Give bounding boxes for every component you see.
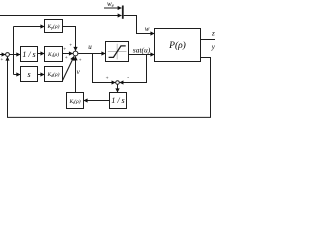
svg-text:+: +: [79, 58, 82, 64]
anti-windup integrator block 1/s: [110, 93, 127, 109]
saturation block: [106, 42, 129, 62]
svg-text:we: we: [107, 0, 115, 9]
svg-text:w: w: [145, 25, 150, 33]
saturation axes: [108, 51, 127, 53]
svg-text:Ki(ρ): Ki(ρ): [47, 51, 59, 58]
wire u to saturation: [78, 53, 105, 55]
svg-text:sat(u): sat(u): [133, 45, 151, 54]
integrator block 1/s: [21, 47, 38, 62]
gain block Kp: [45, 20, 63, 33]
wire branch to Kp: [14, 26, 45, 28]
summing node 1: [6, 53, 10, 57]
svg-text:y: y: [211, 43, 215, 51]
wire v from Kt up to summer: [75, 57, 77, 93]
wire bar to plant w input: [124, 16, 155, 34]
plant P box: [155, 29, 201, 62]
node merge bar: [122, 6, 124, 19]
wire integrator to Kt: [84, 100, 110, 102]
wire error branch vertical: [13, 27, 15, 75]
difference node 3: [116, 81, 120, 85]
wire w_e stub: [104, 7, 121, 9]
wire reference input e: [0, 54, 5, 56]
svg-text:Kt(ρ): Kt(ρ): [68, 98, 80, 105]
wire y output and feedback loop: [8, 57, 211, 118]
wire Kd out diagonal to summer: [63, 56, 75, 80]
wire top exogenous line: [0, 15, 121, 17]
svg-text:+: +: [63, 46, 66, 52]
svg-text:Kp(ρ): Kp(ρ): [47, 23, 60, 30]
svg-text:+: +: [65, 55, 68, 61]
svg-text:z: z: [211, 30, 215, 38]
derivative block s: [21, 67, 38, 82]
svg-text:u: u: [88, 43, 92, 51]
summing node 2: [73, 51, 78, 56]
svg-text:P(ρ): P(ρ): [168, 40, 186, 51]
wire u branch down to difference node: [93, 54, 116, 83]
wire branch to s: [14, 74, 21, 76]
gain block Ki: [45, 47, 63, 62]
gain block Kd: [45, 67, 63, 82]
wire 1/s to Ki: [38, 53, 45, 55]
wire difference to integrator: [117, 84, 119, 92]
svg-text:v: v: [77, 68, 81, 76]
wire Ki out to summer left: [63, 53, 73, 55]
svg-text:-: -: [127, 75, 129, 81]
wire error to integrator: [9, 54, 20, 56]
anti-windup gain block Kt: [67, 93, 84, 109]
wire z output: [201, 39, 216, 41]
svg-text:1 / s: 1 / s: [111, 96, 124, 105]
svg-text:s: s: [27, 70, 30, 79]
svg-text:+: +: [1, 58, 4, 63]
svg-text:1 / s: 1 / s: [22, 50, 35, 59]
wire s to Kd: [38, 74, 45, 76]
wire sat branch down to difference node: [120, 55, 147, 83]
svg-text:Kd(ρ): Kd(ρ): [47, 71, 60, 78]
svg-text:+: +: [106, 75, 109, 81]
wire sat(u) to plant: [129, 54, 155, 56]
saturation curve: [109, 46, 126, 58]
svg-text:+: +: [69, 43, 72, 49]
wire Kp out to summer top: [63, 27, 76, 51]
